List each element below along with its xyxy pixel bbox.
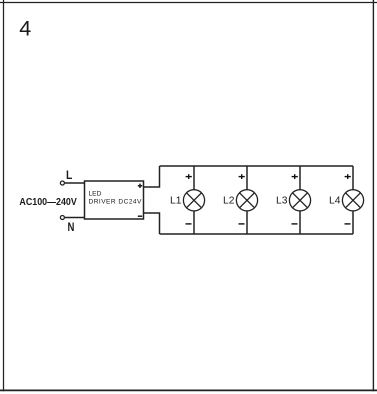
LED driver U1: [85, 181, 144, 219]
lamp L4: [342, 166, 363, 234]
svg-text:L1: L1: [170, 196, 182, 207]
terminal L: [60, 181, 64, 185]
wire + output: [144, 166, 160, 187]
svg-text:L: L: [66, 168, 72, 182]
svg-text:4: 4: [19, 16, 31, 40]
polarity - of L3: [292, 223, 298, 225]
svg-text:L3: L3: [276, 196, 288, 207]
polarity - of L2: [239, 223, 245, 225]
svg-text:L4: L4: [329, 196, 341, 207]
polarity - of L1: [186, 223, 192, 225]
wire bottom bus: [160, 233, 354, 235]
svg-text:LED: LED: [89, 190, 102, 197]
lamp L3: [289, 166, 310, 234]
wire top bus: [160, 165, 354, 167]
svg-text:N: N: [68, 220, 75, 234]
pin label + of driver: [138, 184, 142, 188]
polarity + of L3: [292, 174, 298, 179]
terminal N: [60, 216, 64, 220]
svg-text:DRIVER DC24V: DRIVER DC24V: [89, 198, 143, 205]
svg-text:AC100—240V: AC100—240V: [19, 197, 77, 208]
svg-text:L2: L2: [223, 196, 235, 207]
lamp L1: [183, 166, 204, 234]
wire N input: [65, 217, 85, 219]
polarity + of L4: [345, 174, 351, 179]
lamp L2: [236, 166, 257, 234]
polarity + of L1: [186, 174, 192, 179]
pin label - of driver: [138, 215, 142, 217]
polarity - of L4: [345, 223, 351, 225]
wire - output: [144, 213, 160, 234]
wire L input: [65, 182, 85, 184]
polarity + of L2: [239, 174, 245, 179]
